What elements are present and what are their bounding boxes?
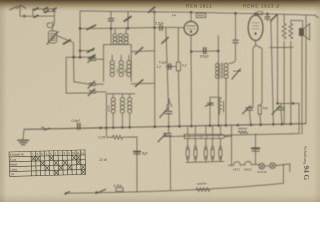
frame bottom right — [283, 164, 289, 183]
grid wire with switch arrows — [80, 25, 170, 58]
triode REN tube1 — [171, 12, 198, 126]
bottom return wire — [65, 183, 284, 194]
top HT rail — [80, 7, 318, 18]
dial lamps — [259, 163, 290, 169]
resistor 0,05 zigzag — [106, 129, 136, 193]
grid leak resistor — [176, 28, 180, 127]
cathode resistor 700 — [258, 105, 261, 124]
decoupling resistor vertical zigzag — [218, 97, 224, 114]
switch on rail drop — [110, 12, 131, 29]
pickup connector hook — [42, 127, 50, 130]
table header text — [10, 151, 85, 177]
pentode RENS tube2 — [248, 12, 263, 46]
antenna — [10, 5, 33, 17]
anode decoupling cap 100uF — [190, 48, 219, 54]
screen cap at rail — [265, 14, 277, 125]
contact table — [9, 150, 86, 177]
voltage divider bar — [184, 125, 226, 138]
AVC branch with trimmer — [205, 97, 218, 126]
grid series cap 0,1uF — [166, 64, 177, 69]
oscillator coils set C with 2200 — [106, 94, 134, 129]
electrolytic 8uF — [134, 152, 140, 154]
ground connection left — [18, 129, 29, 144]
speaker circuit vertical — [301, 36, 303, 134]
wave-range switch top-left — [33, 7, 56, 22]
heater fuse box — [196, 13, 206, 17]
lower heater rail — [158, 127, 299, 142]
tuning coils set B 550/900/2000 — [110, 55, 131, 77]
wires to trimmers — [66, 57, 89, 93]
long vertical to bus — [154, 12, 156, 127]
bus capacitor 0,5uF — [78, 123, 80, 129]
heater drop verticals — [169, 137, 171, 191]
loudspeaker — [299, 24, 309, 40]
divider sockets — [186, 139, 224, 163]
output transformer — [282, 14, 302, 47]
screen feed vertical — [277, 15, 300, 133]
rail end vertical — [305, 15, 307, 124]
trimmer capacitors left column — [88, 56, 107, 96]
mains electrolytic — [252, 134, 259, 165]
grid hook to tube — [167, 99, 172, 107]
grid coupling capacitor 05uF — [160, 25, 163, 30]
mains wire with fuses — [226, 125, 259, 165]
chassis bus — [24, 123, 306, 129]
wire coil to trimmer rail — [57, 36, 74, 82]
fuse box 0,35A — [116, 188, 123, 192]
input rail vertical — [73, 11, 82, 58]
switch arrow blob — [64, 40, 71, 44]
variable antenna coil — [47, 22, 58, 45]
below-bus resistor marks — [238, 128, 247, 133]
mains dropper resistor — [196, 184, 210, 192]
tuning gang line with cap — [160, 28, 172, 127]
antenna coils set A — [113, 28, 128, 44]
series antenna capacitor — [108, 11, 113, 45]
anode trimmer cap — [272, 103, 285, 124]
IF transformer — [216, 36, 241, 126]
speaker return wire — [270, 47, 294, 124]
coupling cap to tube2 — [229, 13, 238, 63]
coil-pack frame — [104, 45, 132, 82]
X marks — [32, 155, 86, 175]
tube2 cathode split — [249, 45, 262, 108]
table grid — [9, 150, 86, 177]
bottom switch — [96, 189, 106, 193]
earth hook loop — [47, 22, 54, 28]
band switch arrows right of frame — [131, 47, 154, 86]
cathode trimmer cap — [243, 106, 253, 125]
